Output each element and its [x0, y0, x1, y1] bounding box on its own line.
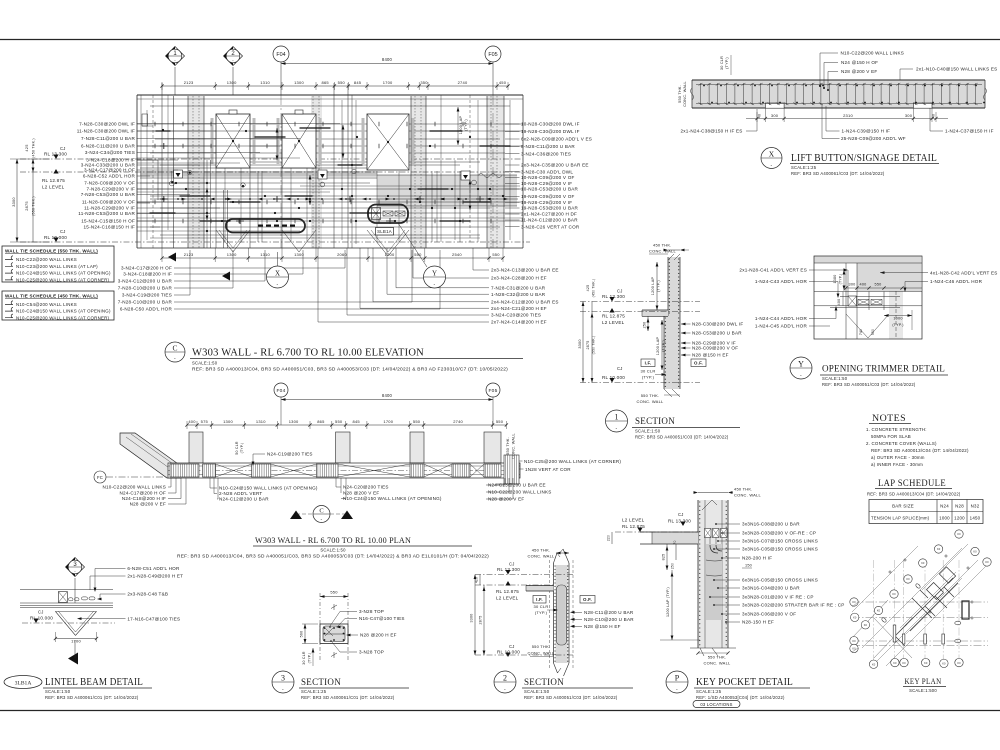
- section1 250 dim: [647, 316, 649, 331]
- svg-text:N28-C53@200 U BAR: N28-C53@200 U BAR: [692, 331, 742, 336]
- svg-text:2x1-N24-C27@200 H DF: 2x1-N24-C27@200 H DF: [521, 212, 577, 217]
- lintel section triangle marker: [68, 653, 78, 665]
- lintel highlight rounded rect 1: [226, 219, 305, 233]
- svg-text:1. CONCRETE STRENGTH:: 1. CONCRETE STRENGTH:: [866, 427, 927, 432]
- svg-text:1300: 1300: [227, 80, 237, 85]
- section2 rebar dot columns: [554, 565, 555, 566]
- elevation gray column band 2: [311, 96, 322, 248]
- svg-text:I.F.: I.F.: [536, 597, 543, 602]
- svg-text:6x3N16-C05@150 CROSS LINKS: 6x3N16-C05@150 CROSS LINKS: [742, 578, 818, 583]
- svg-text:3300: 3300: [578, 339, 582, 348]
- svg-text:845: 845: [354, 80, 362, 85]
- svg-text:N24-C20@200 TIES: N24-C20@200 TIES: [343, 485, 389, 490]
- svg-text:25-N28-C09@200 ADD'L WF: 25-N28-C09@200 ADD'L WF: [841, 136, 906, 141]
- svg-text:550: 550: [335, 419, 343, 424]
- svg-text:CONC. WALL: CONC. WALL: [637, 399, 664, 404]
- svg-text:K0: K0: [877, 609, 881, 613]
- svg-text:10-N28-C53@200 U BAR: 10-N28-C53@200 U BAR: [521, 187, 579, 192]
- trimmer gray right block: [857, 263, 921, 291]
- svg-text:825: 825: [662, 554, 666, 561]
- keypocket wall top break: [702, 500, 712, 510]
- svg-text:CJ: CJ: [617, 289, 623, 294]
- svg-text:N10-C24@150 WALL LINKS (AT OPE: N10-C24@150 WALL LINKS (AT OPENING): [219, 486, 318, 491]
- section cut bubble X under elevation: [267, 266, 289, 288]
- section1 title bubble: [606, 410, 628, 432]
- svg-text:550: 550: [413, 419, 421, 424]
- svg-text:-: -: [277, 282, 279, 288]
- svg-text:40: 40: [932, 114, 936, 118]
- trimmer outer box: [814, 256, 922, 339]
- wall tie schedule 450 box: [2, 291, 114, 320]
- svg-text:2740: 2740: [458, 80, 468, 85]
- plan FC bubble: [94, 471, 106, 483]
- section2 wall inner gray core: [558, 586, 566, 644]
- svg-text:N24-C12@200 U BAR: N24-C12@200 U BAR: [219, 497, 269, 502]
- svg-text:3-N28 TOP: 3-N28 TOP: [359, 650, 384, 655]
- svg-text:O.F.: O.F.: [694, 361, 703, 366]
- plan gray columns: [189, 432, 203, 463]
- svg-text:30 CLR: 30 CLR: [641, 369, 656, 374]
- svg-text:N28 @150 H EF: N28 @150 H EF: [692, 353, 729, 358]
- svg-text:(450 THK.): (450 THK.): [592, 279, 596, 298]
- svg-text:-: -: [771, 162, 773, 168]
- trimmer title bubble Y: [790, 357, 812, 379]
- svg-text:REF: BR3 SD A400051/C03 (DT: 1: REF: BR3 SD A400051/C03 (DT: 14/04/2022): [822, 382, 916, 387]
- section3 centre tick bottom: [333, 652, 335, 658]
- plan wall band outline: [168, 463, 520, 478]
- lift detail stirrups: [699, 83, 978, 105]
- svg-text:2x3-N24-C28@200 H EF: 2x3-N24-C28@200 H EF: [491, 276, 547, 281]
- svg-text:N10-C54@200 WALL LINKS: N10-C54@200 WALL LINKS: [16, 302, 77, 307]
- lintel highlight rounded rect SLB1A: [368, 205, 408, 224]
- svg-text:7-N28-C29@200 V IF: 7-N28-C29@200 V IF: [87, 187, 135, 192]
- svg-text:2740: 2740: [453, 419, 463, 424]
- svg-text:70: 70: [673, 540, 677, 544]
- svg-text:550 THK.: 550 THK.: [506, 437, 510, 455]
- svg-text:(TYP.): (TYP.): [642, 375, 655, 380]
- svg-text:N10-C22@200 WALL LINKS: N10-C22@200 WALL LINKS: [841, 51, 905, 56]
- svg-text:2x4-N24-C21@200 H EF: 2x4-N24-C21@200 H EF: [491, 306, 547, 311]
- lift detail title bubble X: [761, 148, 782, 169]
- svg-text:KEY PLAN: KEY PLAN: [905, 676, 942, 686]
- svg-text:10-N28-C09@200 V OF: 10-N28-C09@200 V OF: [521, 175, 575, 180]
- V strut under opening 1: [216, 230, 233, 252]
- keypocket bottom break: [700, 648, 704, 656]
- lintel wall plan lines: [20, 589, 113, 591]
- svg-text:550: 550: [414, 252, 422, 257]
- elevation gray column band 4: [487, 96, 504, 248]
- section3 centre tick top: [333, 604, 335, 610]
- svg-text:1-N24-C46 ADD'L HOR: 1-N24-C46 ADD'L HOR: [930, 279, 983, 284]
- svg-text:1700: 1700: [385, 252, 395, 257]
- svg-text:a) OUTER FACE - 30mm: a) OUTER FACE - 30mm: [871, 455, 925, 460]
- svg-text:W303 WALL - RL 6.700 TO RL 10.: W303 WALL - RL 6.700 TO RL 10.00 PLAN: [255, 535, 412, 545]
- svg-text:1700: 1700: [71, 639, 81, 644]
- svg-text:OPENING TRIMMER DETAIL: OPENING TRIMMER DETAIL: [822, 365, 945, 375]
- V strut under opening 3: [367, 230, 388, 256]
- svg-text:1-N24-C44 ADD'L HOR: 1-N24-C44 ADD'L HOR: [755, 316, 808, 321]
- solid triangle markers: [168, 253, 176, 262]
- svg-text:1-N24-C37@150 H IF: 1-N24-C37@150 H IF: [945, 128, 994, 133]
- svg-text:1-N24-C39@150 H IF: 1-N24-C39@150 H IF: [842, 128, 891, 133]
- svg-text:7-N28-C10@200 U BAR: 7-N28-C10@200 U BAR: [118, 286, 173, 291]
- svg-text:3300: 3300: [11, 197, 16, 207]
- svg-text:CJ: CJ: [678, 512, 684, 517]
- svg-text:Y: Y: [432, 269, 437, 277]
- svg-text:(450 THK.): (450 THK.): [32, 138, 36, 158]
- svg-text:11-N28-C53@200 U BAR: 11-N28-C53@200 U BAR: [78, 211, 135, 216]
- svg-text:1380: 1380: [833, 275, 837, 284]
- svg-text:1-N24-C43 ADD'L HOR: 1-N24-C43 ADD'L HOR: [755, 279, 808, 284]
- svg-text:550: 550: [338, 80, 346, 85]
- svg-text:6-N28-C50 ADD'L HOR: 6-N28-C50 ADD'L HOR: [120, 307, 173, 312]
- svg-text:N24-C18@200 H IF: N24-C18@200 H IF: [122, 496, 166, 501]
- svg-text:N24 @150 H OF: N24 @150 H OF: [841, 60, 878, 65]
- svg-text:1200 LAP (TYP.): 1200 LAP (TYP.): [666, 587, 670, 617]
- jamb bars beside openings: [211, 118, 214, 164]
- svg-text:1300: 1300: [223, 419, 233, 424]
- opening 1 with cross: [216, 114, 250, 168]
- svg-text:8400: 8400: [382, 57, 393, 62]
- grid diamond bubble 1: [166, 47, 185, 66]
- svg-text:(TYP.): (TYP.): [892, 323, 903, 327]
- svg-text:1300: 1300: [289, 419, 299, 424]
- svg-text:300: 300: [905, 113, 913, 118]
- section2 wall strip: [556, 565, 568, 663]
- keyplan horizontal dashdot gridlines: [852, 601, 988, 603]
- svg-text:350: 350: [420, 80, 428, 85]
- svg-text:N10-C25@200 WALL LINKS (AT COR: N10-C25@200 WALL LINKS (AT CORNER): [524, 459, 621, 464]
- svg-text:P: P: [675, 673, 680, 682]
- svg-text:550 THK.: 550 THK.: [641, 393, 660, 398]
- svg-text:425: 425: [24, 144, 29, 151]
- svg-text:-: -: [800, 373, 802, 379]
- svg-text:865: 865: [317, 419, 325, 424]
- section2 wall bottom taper: [554, 663, 558, 673]
- svg-text:7-N28-C53@200 U BAR: 7-N28-C53@200 U BAR: [81, 192, 136, 197]
- elevation gray column band 3: [411, 96, 426, 248]
- elevation level line RL 12.875 L2: [20, 171, 523, 173]
- grid diamond bubble 2: [224, 47, 243, 66]
- svg-text:W303 WALL - RL 6.700 TO RL 10.: W303 WALL - RL 6.700 TO RL 10.00 ELEVATI…: [192, 348, 424, 359]
- svg-text:SCALE:1:50: SCALE:1:50: [45, 689, 71, 694]
- svg-text:19-N28-C29@200 V IF: 19-N28-C29@200 V IF: [521, 200, 572, 205]
- sheet top border line: [0, 39, 1000, 41]
- section3 inner concrete: [323, 626, 345, 642]
- svg-text:2123: 2123: [184, 252, 194, 257]
- svg-text:L2 LEVEL: L2 LEVEL: [602, 320, 625, 325]
- trimmer gray top strip: [814, 256, 921, 263]
- svg-text:REF: 1/SD A400053[C04] (DT: 14: REF: 1/SD A400053[C04] (DT: 14/04/2022): [696, 695, 785, 700]
- V strut under opening 2: [282, 230, 299, 252]
- svg-text:7-N28-C11@200 U BAR: 7-N28-C11@200 U BAR: [81, 136, 135, 141]
- svg-text:3-N24-C17@200 H OF: 3-N24-C17@200 H OF: [121, 266, 172, 271]
- svg-text:N28-C30@200 DWL IF: N28-C30@200 DWL IF: [692, 322, 743, 327]
- svg-text:300: 300: [771, 113, 779, 118]
- svg-text:CONC. WALL: CONC. WALL: [512, 433, 516, 459]
- lintel grid diamond 3: [66, 558, 85, 577]
- break squiggle on beam zone: [478, 174, 502, 178]
- svg-text:(TYP.): (TYP.): [535, 610, 548, 615]
- svg-text:SECTION: SECTION: [635, 416, 675, 427]
- svg-text:K0: K0: [957, 532, 961, 536]
- section2 level RL 12.875: [505, 581, 510, 586]
- elevation slab band gray: [140, 171, 377, 177]
- svg-text:F04: F04: [276, 52, 285, 58]
- elevation thick bar segments: [150, 128, 510, 221]
- section3 550 dim: [320, 596, 348, 598]
- svg-text:1310: 1310: [256, 419, 266, 424]
- trimmer inner lines: [814, 262, 922, 264]
- svg-text:F05: F05: [488, 52, 497, 58]
- elevation U-bar arrow line y199: [150, 198, 518, 200]
- svg-text:3-N28-C26 VERT AT COR: 3-N28-C26 VERT AT COR: [521, 224, 580, 229]
- svg-text:SCALE:1:50: SCALE:1:50: [822, 376, 848, 381]
- plan left sloped wall wing: [120, 433, 181, 478]
- lift detail beam body: [692, 80, 985, 108]
- section3 rebar dots: [324, 627, 326, 629]
- elevation level line RL 10.000: [20, 241, 530, 243]
- svg-text:RL 12.875: RL 12.875: [42, 178, 65, 183]
- plan section C marker: [290, 511, 302, 520]
- plan right corner return: [504, 455, 519, 484]
- keypocket dims left: [611, 532, 613, 544]
- svg-text:2: 2: [503, 673, 507, 682]
- svg-text:3x3N28-C06@200 V OF: 3x3N28-C06@200 V OF: [742, 612, 796, 617]
- trimmer light band vertical: [889, 291, 903, 339]
- svg-text:11-N28-C30@200 DWL IF: 11-N28-C30@200 DWL IF: [77, 129, 135, 134]
- elevation vertical dim 2875 550THK: [32, 172, 34, 242]
- svg-text:TENSION LAP SPLICE(mm): TENSION LAP SPLICE(mm): [871, 516, 930, 521]
- svg-text:SCALE:1:50: SCALE:1:50: [192, 361, 218, 366]
- section3 title bubble: [272, 671, 294, 693]
- svg-text:19-N28-C53@200 U BAR: 19-N28-C53@200 U BAR: [521, 206, 579, 211]
- svg-text:L2 LEVEL: L2 LEVEL: [622, 518, 645, 523]
- svg-text:2x3-N24-C13@200 U BAR EE: 2x3-N24-C13@200 U BAR EE: [491, 268, 559, 273]
- svg-text:LAP SCHEDULE: LAP SCHEDULE: [878, 478, 946, 488]
- keypocket 1200 LAP dim: [671, 570, 673, 640]
- svg-text:L2 LEVEL: L2 LEVEL: [496, 596, 519, 601]
- section1 vertical dims: [582, 302, 584, 383]
- svg-text:N10-C24@150 WALL LINKS (AT OPE: N10-C24@150 WALL LINKS (AT OPENING): [16, 309, 111, 314]
- svg-text:K0: K0: [921, 561, 925, 565]
- svg-text:3-N24-C17@200 H OF: 3-N24-C17@200 H OF: [84, 168, 135, 173]
- svg-text:30 CLR: 30 CLR: [720, 56, 724, 70]
- svg-text:8400: 8400: [382, 393, 393, 398]
- svg-text:SCALE:1:50: SCALE:1:50: [320, 547, 346, 552]
- svg-text:C: C: [319, 507, 323, 514]
- keyplan diagonal gridlines: [852, 544, 988, 666]
- section1 level RL 12.875: [609, 308, 614, 313]
- svg-text:1310: 1310: [260, 252, 270, 257]
- svg-text:CJ: CJ: [60, 146, 66, 151]
- svg-text:15-N24-C16@150 H IF: 15-N24-C16@150 H IF: [84, 225, 135, 230]
- svg-text:K0: K0: [957, 661, 961, 665]
- svg-text:10-N28-C30@200 DWL IF: 10-N28-C30@200 DWL IF: [521, 122, 580, 127]
- svg-text:REF: BR3 SD A400061/C03 (DT: 1: REF: BR3 SD A400061/C03 (DT: 14/04/2022): [791, 171, 885, 176]
- elevation title bubble C: [165, 342, 185, 362]
- lift beam inner chord lines: [696, 84, 982, 86]
- svg-text:I.F.: I.F.: [645, 361, 652, 366]
- svg-text:X: X: [769, 149, 775, 158]
- svg-text:N28-150 H EF: N28-150 H EF: [742, 620, 774, 625]
- svg-text:N10-C22@200 WALL LINKS: N10-C22@200 WALL LINKS: [102, 485, 166, 490]
- svg-text:150: 150: [745, 564, 752, 568]
- section2 wall top taper: [554, 553, 558, 563]
- SLB1A tag box: [376, 228, 394, 236]
- section2 3300 2875 dims: [474, 575, 476, 656]
- svg-text:550 THK.: 550 THK.: [708, 655, 727, 660]
- dim 8400 elevation top: [281, 63, 493, 65]
- svg-text:N28 @200 V EF: N28 @200 V EF: [130, 502, 166, 507]
- svg-text:K0: K0: [872, 662, 876, 666]
- svg-text:Y: Y: [798, 359, 804, 368]
- lintel 1700 dim: [55, 638, 96, 640]
- svg-text:2123: 2123: [184, 80, 194, 85]
- svg-text:REF: BR3 SD A400061/C01 (DT: 1: REF: BR3 SD A400061/C01 (DT: 14/04/2022): [301, 695, 395, 700]
- svg-text:(TYP.): (TYP.): [240, 443, 244, 454]
- svg-text:L2 LEVEL: L2 LEVEL: [42, 185, 65, 190]
- elevation vertical arrows: [276, 128, 278, 160]
- section2 dashed edges: [549, 560, 551, 668]
- svg-text:(550 THK.): (550 THK.): [32, 196, 36, 216]
- svg-text:7-N28-C31@200 U BAR: 7-N28-C31@200 U BAR: [491, 286, 546, 291]
- level marker RL 12.875 L2 LEVEL left: [53, 169, 58, 174]
- svg-text:CJ: CJ: [509, 562, 515, 567]
- elevation bottom dimension row: [162, 257, 503, 259]
- section2 IF OF boxes: [533, 596, 546, 604]
- svg-text:N24: N24: [940, 504, 949, 509]
- svg-text:N10-C23@200 WALL LINKS (AT LAP: N10-C23@200 WALL LINKS (AT LAP): [16, 264, 98, 269]
- trimmer diagonals: [846, 314, 868, 338]
- elevation top dimension row: [162, 85, 508, 87]
- svg-text:550: 550: [492, 252, 500, 257]
- svg-text:CONC. WALL: CONC. WALL: [528, 651, 555, 656]
- svg-text:(TYP.): (TYP.): [657, 280, 661, 292]
- svg-text:30 CLR: 30 CLR: [534, 604, 549, 609]
- plan X cross segments: [216, 464, 252, 477]
- svg-text:450: 450: [499, 80, 507, 85]
- elevation vertical dim 3300: [16, 159, 18, 242]
- keyplan tiny dots: [945, 555, 947, 557]
- svg-text:1-N28-C32@200 U BAR: 1-N28-C32@200 U BAR: [491, 292, 546, 297]
- svg-text:SCALE:1:25: SCALE:1:25: [301, 689, 327, 694]
- svg-text:REF: BR3 SD A400051/C03 (DT: 1: REF: BR3 SD A400051/C03 (DT: 14/04/2022): [635, 435, 729, 440]
- plan hatched link boxes: [170, 464, 199, 477]
- svg-text:2540: 2540: [452, 252, 462, 257]
- svg-text:CONC. WALL: CONC. WALL: [704, 661, 731, 666]
- svg-text:2310: 2310: [843, 113, 853, 118]
- svg-text:400: 400: [860, 283, 867, 287]
- section1 IF OF boxes: [641, 359, 655, 367]
- elevation level line RL 13.300: [20, 158, 523, 160]
- section1 upper wall strip: [668, 257, 680, 316]
- svg-text:15-N24-C15@150 H OF: 15-N24-C15@150 H OF: [81, 219, 135, 224]
- section cut bubble Y under elevation: [424, 266, 446, 288]
- svg-text:50 CLR: 50 CLR: [235, 441, 239, 455]
- svg-text:1-N24-C45 ADD'L HOR: 1-N24-C45 ADD'L HOR: [755, 324, 808, 329]
- svg-text:CONC. WALL: CONC. WALL: [528, 554, 555, 559]
- svg-text:RL 12.875: RL 12.875: [602, 314, 625, 319]
- svg-text:WALL TIE SCHEDULE (550 THK. WA: WALL TIE SCHEDULE (550 THK. WALL): [5, 248, 98, 253]
- svg-text:3-N28 TOP: 3-N28 TOP: [359, 609, 384, 614]
- svg-text:2. CONCRETE COVER (WALLS): 2. CONCRETE COVER (WALLS): [866, 441, 937, 446]
- lift detail pocket notch 2: [913, 103, 932, 108]
- svg-text:560: 560: [300, 631, 304, 638]
- elevation small circles: [188, 170, 192, 174]
- svg-text:REF: BR3 SD A400013/C04 (DT: 1: REF: BR3 SD A400013/C04 (DT: 14/04/2022): [871, 448, 969, 453]
- plan grid bubble F05: [486, 383, 500, 397]
- svg-text:SCALE:1:500: SCALE:1:500: [909, 688, 937, 693]
- lift beam end break left: [691, 88, 694, 100]
- keypocket pocket core gray: [706, 544, 722, 620]
- lintel V shape: [55, 611, 75, 635]
- elevation vertical lines: [136, 95, 138, 248]
- section1 slab band: [642, 310, 668, 316]
- svg-text:550 THK.: 550 THK.: [678, 85, 682, 103]
- trimmer X box: [848, 296, 857, 306]
- svg-text:3x3N16-C08@200 U BAR: 3x3N16-C08@200 U BAR: [742, 522, 800, 527]
- keypocket inner vertical lines: [704, 500, 706, 648]
- svg-text:450 THK.: 450 THK.: [734, 486, 753, 491]
- svg-text:K0: K0: [892, 592, 896, 596]
- svg-text:50MPa FOR SLAB: 50MPa FOR SLAB: [871, 434, 911, 439]
- trimmer hatched bars: [858, 300, 869, 305]
- lintel title oval: [4, 676, 42, 689]
- svg-text:K0: K0: [852, 600, 856, 604]
- keyplan black rect column: [962, 601, 969, 619]
- svg-text:F04: F04: [277, 388, 286, 394]
- svg-text:10-N28-C29@200 V IF: 10-N28-C29@200 V IF: [521, 181, 572, 186]
- svg-text:O.F.: O.F.: [583, 597, 592, 602]
- svg-text:3x3N28-C01@200 V IF RE : CP: 3x3N28-C01@200 V IF RE : CP: [742, 595, 814, 600]
- svg-text:RL 12.875: RL 12.875: [496, 589, 519, 594]
- svg-text:550: 550: [330, 590, 338, 595]
- svg-text:N10-C22@200 WALL LINKS: N10-C22@200 WALL LINKS: [16, 257, 77, 262]
- svg-text:N28 @200 V EF: N28 @200 V EF: [343, 491, 379, 496]
- keyplan building walls diagonal: [895, 567, 958, 646]
- svg-text:N24-C17@200 H OF: N24-C17@200 H OF: [120, 491, 166, 496]
- section1 1200 LAP rotated upper: [656, 262, 658, 310]
- svg-text:CJ: CJ: [617, 366, 623, 371]
- svg-text:N10-C24@150 WALL LINKS (AT OPE: N10-C24@150 WALL LINKS (AT OPENING): [16, 271, 111, 276]
- svg-text:K0: K0: [864, 623, 868, 627]
- svg-text:SCALE:1:25: SCALE:1:25: [791, 165, 817, 170]
- svg-text:-: -: [434, 282, 436, 288]
- lintel bar ovals: [69, 598, 74, 601]
- svg-text:1700: 1700: [383, 419, 393, 424]
- keypocket 03 locations oval: [693, 701, 740, 708]
- svg-text:RL 10.000: RL 10.000: [30, 616, 53, 621]
- svg-text:1: 1: [615, 412, 619, 421]
- section1 dim arrows top: [668, 249, 680, 251]
- svg-text:30 CLR: 30 CLR: [302, 651, 306, 665]
- svg-text:K0: K0: [906, 577, 910, 581]
- svg-text:CJ: CJ: [60, 229, 66, 234]
- svg-text:300: 300: [849, 283, 856, 287]
- grid line F05 through elevation: [492, 95, 494, 248]
- slab level symbol left: [174, 170, 183, 178]
- svg-text:-: -: [282, 687, 284, 693]
- svg-text:N28 @200 V EF: N28 @200 V EF: [841, 69, 877, 74]
- elevation extra verticals: [173, 96, 175, 248]
- svg-text:F05: F05: [489, 388, 498, 394]
- svg-text:250: 250: [643, 322, 647, 329]
- svg-text:1450: 1450: [970, 516, 981, 521]
- elevation plus tick crossings: [160, 198, 168, 200]
- grid line F04 through elevation: [280, 95, 282, 248]
- svg-text:6-N28-C52 ADD'L HOR: 6-N28-C52 ADD'L HOR: [83, 174, 136, 179]
